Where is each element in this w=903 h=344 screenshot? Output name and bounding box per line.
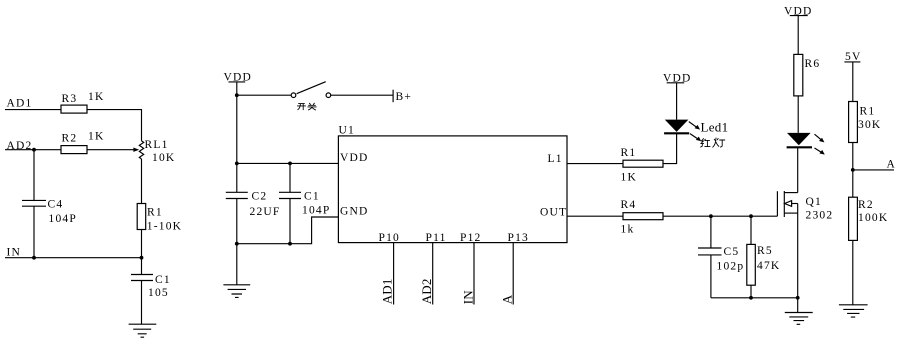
svg-text:P10: P10	[379, 232, 401, 244]
svg-text:A: A	[500, 294, 515, 304]
svg-text:C4: C4	[48, 199, 64, 211]
svg-text:R1: R1	[860, 106, 876, 118]
resistor R4	[623, 213, 663, 220]
diode LED2 cathode bar	[787, 146, 812, 148]
svg-text:VDD: VDD	[340, 152, 369, 164]
svg-text:100K: 100K	[858, 212, 888, 224]
junction VDD/switch	[235, 93, 239, 97]
wire R5 top	[750, 216, 752, 244]
svg-text:U1: U1	[339, 125, 355, 137]
wire R6 to LED anode	[797, 96, 799, 133]
capacitor C2	[226, 192, 248, 198]
svg-text:R5: R5	[757, 245, 773, 257]
resistor R2	[61, 146, 87, 154]
svg-text:R1: R1	[147, 206, 163, 218]
svg-text:IN: IN	[460, 290, 475, 305]
junction ground rail left	[235, 242, 239, 246]
LED2 emission arrow 1	[815, 134, 825, 142]
LED2 emission arrow 2	[815, 148, 825, 155]
battery terminal bar B+	[392, 90, 394, 103]
svg-text:AD1: AD1	[7, 98, 33, 110]
wire node A stub	[853, 169, 894, 171]
diode Led1 cathode bar	[664, 132, 689, 134]
svg-text:1K: 1K	[621, 171, 637, 183]
svg-text:104P: 104P	[302, 204, 330, 216]
wire Q1 drain up to LED	[797, 147, 799, 192]
label switch 开关	[297, 103, 316, 110]
svg-text:104P: 104P	[49, 213, 77, 225]
svg-text:RL1: RL1	[145, 139, 169, 151]
junction IN/C4	[32, 256, 36, 260]
wire R1 to node A	[852, 143, 854, 198]
pin stub P10	[393, 243, 395, 305]
IC U1 body	[338, 136, 567, 243]
svg-text:OUT: OUT	[540, 207, 567, 219]
svg-text:10K: 10K	[152, 152, 175, 164]
svg-text:B+: B+	[396, 91, 413, 103]
transistor Q1 gate bar	[776, 191, 778, 216]
junction C1 top (middle)	[288, 162, 292, 166]
label 红灯	[701, 138, 725, 147]
svg-text:AD1: AD1	[379, 278, 394, 304]
svg-text:30K: 30K	[858, 119, 881, 131]
wire 5V to R1	[852, 62, 854, 102]
junction AD2/C4	[32, 148, 36, 152]
capacitor C1 (left)	[131, 275, 153, 281]
ground (left)	[129, 324, 157, 337]
svg-text:P11: P11	[426, 232, 447, 244]
resistor R1 (left)	[137, 204, 146, 230]
svg-text:R4: R4	[621, 199, 637, 211]
wire R1 to IN rail	[141, 230, 143, 258]
pin stub P13	[512, 243, 514, 305]
svg-text:105: 105	[148, 287, 169, 299]
resistor R6	[794, 54, 803, 96]
wire ground stem (middle)	[236, 244, 238, 285]
diode LED2 triangle	[787, 133, 811, 145]
wire C5 top	[710, 216, 712, 248]
wire R3 to RL1 top	[87, 110, 142, 141]
power VDD underline	[229, 81, 246, 83]
wire VDD to Led1 anode	[676, 83, 678, 120]
wire C4 to IN rail	[33, 206, 35, 258]
svg-text:GND: GND	[340, 206, 369, 218]
junction ground rail C1	[288, 242, 292, 246]
svg-text:Led1: Led1	[701, 120, 729, 135]
svg-text:47K: 47K	[757, 260, 780, 272]
wire ground rail to U1 GND pin	[237, 217, 339, 244]
svg-text:C1: C1	[304, 191, 320, 203]
svg-text:R6: R6	[805, 58, 821, 70]
ground (middle)	[223, 285, 250, 298]
resistor R2 (divider bottom)	[849, 197, 858, 240]
svg-text:R2: R2	[62, 133, 78, 145]
switch pole contact	[291, 93, 296, 98]
svg-text:P12: P12	[460, 232, 482, 244]
wire RL1 to R1	[141, 159, 143, 204]
switch blade	[297, 82, 326, 94]
wire C1 to ground	[141, 281, 143, 325]
wire IN rail	[5, 257, 142, 259]
svg-text:L1: L1	[548, 153, 563, 165]
wire R4 to Q1 gate	[663, 215, 777, 217]
transistor Q1 drain connect	[784, 192, 797, 194]
capacitor C4	[22, 200, 46, 206]
wire switch to battery	[331, 94, 393, 96]
switch throw contact	[326, 93, 331, 98]
resistor R3	[61, 105, 87, 113]
wire Q1 source down	[797, 204, 799, 298]
wire OUT pin to R4	[567, 215, 623, 217]
wire VDD rail down	[236, 82, 238, 192]
power VDD underline (R6 branch)	[790, 15, 808, 17]
resistor R1 (divider top)	[849, 102, 858, 143]
wire switch left	[237, 94, 291, 96]
svg-text:102p: 102p	[717, 260, 745, 272]
junction node A	[851, 168, 855, 172]
Led1 indicator arrow 1	[689, 122, 700, 130]
svg-text:5V: 5V	[845, 51, 861, 63]
junction Q1 source/ground rail	[796, 296, 800, 300]
capacitor C5	[698, 248, 722, 255]
junction OUT/C5	[709, 214, 713, 218]
wire AD2 junction down to C4	[33, 150, 35, 201]
resistor R1 (L1 series)	[623, 160, 663, 167]
svg-text:R2: R2	[858, 199, 874, 211]
wire source ground rail	[711, 297, 798, 299]
wire AD2 to R2	[5, 149, 61, 151]
svg-text:C2: C2	[252, 191, 268, 203]
wire R1 to Led1 cathode	[663, 133, 677, 163]
svg-text:1K: 1K	[88, 131, 104, 143]
wire C1 middle bottom	[289, 199, 291, 244]
ground (Q1 source)	[785, 313, 813, 325]
transistor Q1 body arrow	[785, 201, 798, 207]
transistor Q1 channel bar	[783, 191, 785, 217]
power VDD underline (Led1)	[667, 82, 685, 84]
wiper arrow into RL1	[133, 148, 139, 152]
wire AD1 to R3	[5, 109, 61, 111]
wire R2 to ground	[852, 240, 854, 304]
diode Led1 triangle	[665, 120, 689, 132]
svg-text:C5: C5	[724, 246, 740, 258]
ground (divider)	[839, 305, 868, 317]
wire VDD to R6	[797, 16, 799, 55]
pin stub P12	[473, 243, 475, 305]
wire R2 to RL1 wiper	[87, 149, 134, 151]
junction OUT/R5	[749, 214, 753, 218]
wire VDD to U1 VDD pin	[237, 162, 339, 164]
wire C2 bottom to ground rail	[236, 199, 238, 244]
svg-text:1k: 1k	[621, 224, 635, 236]
wire L1 pin to R1	[567, 163, 623, 165]
svg-text:R3: R3	[62, 93, 78, 105]
svg-text:IN: IN	[7, 246, 22, 258]
capacitor C1 (middle)	[279, 192, 301, 198]
Led1 indicator arrow 2	[690, 134, 701, 142]
svg-text:AD2: AD2	[419, 278, 434, 304]
svg-text:P13: P13	[508, 232, 530, 244]
wire R5 bottom	[750, 285, 752, 298]
svg-text:22UF: 22UF	[250, 206, 281, 218]
svg-text:A: A	[887, 159, 897, 171]
wire C1 middle top	[289, 163, 291, 192]
wire IN junction down to C1	[141, 258, 143, 275]
wire ground stem (Q1 source)	[797, 298, 799, 313]
pin stub P11	[432, 243, 434, 305]
svg-text:2302: 2302	[806, 209, 834, 221]
svg-text:C1: C1	[155, 274, 171, 286]
potentiometer RL1 zigzag	[139, 141, 143, 159]
junction R5/ground rail	[749, 296, 753, 300]
svg-text:1K: 1K	[88, 91, 104, 103]
svg-text:R1: R1	[621, 147, 637, 159]
resistor R5	[747, 244, 756, 285]
svg-text:Q1: Q1	[806, 196, 822, 208]
wire C5 bottom	[710, 255, 712, 298]
power 5V underline	[844, 61, 860, 63]
junction IN/C1	[140, 256, 144, 260]
junction VDD/IC supply	[235, 162, 239, 166]
transistor Q1 source connect	[784, 212, 797, 214]
svg-text:1-10K: 1-10K	[147, 220, 182, 232]
